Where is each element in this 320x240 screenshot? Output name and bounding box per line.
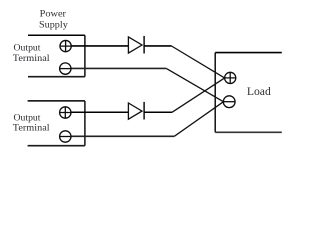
svg-text:Output: Output bbox=[14, 112, 42, 122]
svg-text:Terminal: Terminal bbox=[13, 123, 50, 133]
svg-text:Load: Load bbox=[247, 86, 271, 98]
svg-text:Terminal: Terminal bbox=[13, 53, 50, 63]
svg-text:Output: Output bbox=[14, 43, 42, 53]
svg-text:Supply: Supply bbox=[39, 19, 68, 29]
svg-text:Power: Power bbox=[40, 9, 66, 19]
